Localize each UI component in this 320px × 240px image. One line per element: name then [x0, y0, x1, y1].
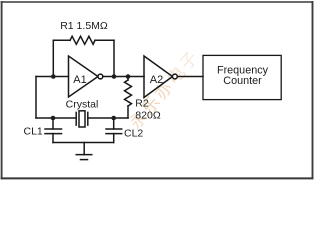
capacitor CL1 top stub — [52, 118, 54, 129]
capacitor CL1 plates — [45, 128, 62, 130]
wire left vertical down — [35, 77, 37, 119]
wire A2 output to counter — [177, 76, 203, 78]
capacitor CL2 plates — [106, 128, 122, 130]
node dot A1 input/feedback — [51, 74, 56, 79]
resistor R2 zigzag — [125, 80, 132, 106]
watermark — [126, 48, 202, 133]
svg-text:CL1: CL1 — [24, 126, 43, 138]
svg-text:CL2: CL2 — [124, 128, 143, 140]
capacitor CL2 top stub — [113, 118, 115, 129]
ground bar 1 — [76, 154, 92, 156]
wire A1 input horizontal — [36, 76, 69, 78]
capacitor CL2 bottom stub — [113, 134, 115, 143]
op-amp A1 triangle — [69, 56, 99, 97]
border frame left — [1, 1, 3, 179]
border frame top — [1, 1, 314, 3]
node dot A1 output/feedback — [112, 74, 117, 79]
border frame right — [312, 1, 314, 179]
border frame bottom — [1, 177, 314, 179]
crystal right plate — [87, 112, 89, 125]
wire feedback loop left vertical — [52, 40, 54, 76]
op-amp A2 triangle — [144, 56, 173, 98]
wire crystal line right — [88, 117, 128, 119]
frequency counter box — [203, 55, 281, 99]
resistor R1 zigzag — [70, 36, 95, 44]
node dot crystal left / CL1 — [51, 116, 56, 121]
wire feedback loop right vertical — [113, 40, 115, 76]
op-amp A1 inverter bubble — [98, 74, 103, 79]
node dot crystal right / CL2 — [111, 116, 116, 121]
crystal body rect — [79, 111, 85, 127]
resistor R2 bottom stub — [127, 106, 129, 118]
wire bottom between CL1 and CL2 — [53, 142, 114, 144]
wire feedback top left stub — [53, 39, 70, 41]
capacitor CL1 bottom stub — [52, 134, 54, 143]
svg-text:R2: R2 — [135, 98, 149, 110]
svg-text:A2: A2 — [150, 74, 163, 86]
op-amp A2 inverter bubble — [173, 74, 178, 79]
svg-text:Crystal: Crystal — [66, 99, 99, 111]
svg-text:820Ω: 820Ω — [135, 110, 161, 122]
node dot R2 top — [126, 74, 131, 79]
resistor R2 top stub — [127, 77, 129, 81]
ground stub — [83, 143, 85, 155]
crystal left plate — [75, 112, 77, 125]
wire feedback top right stub — [95, 39, 114, 41]
ground bar 2 — [81, 159, 88, 161]
svg-text:R1 1.5MΩ: R1 1.5MΩ — [60, 20, 108, 32]
wire A1 output to A2 input — [103, 76, 144, 78]
svg-text:A1: A1 — [73, 74, 86, 86]
wire crystal line left — [36, 117, 76, 119]
svg-text:Counter: Counter — [223, 75, 262, 87]
